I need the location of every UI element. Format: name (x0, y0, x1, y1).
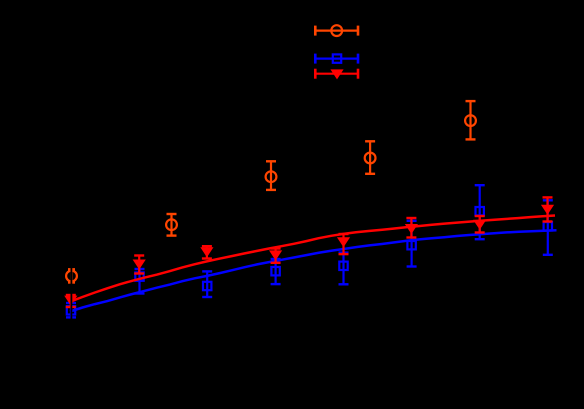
red errorbar point R4 (269, 249, 282, 263)
blue errorbar point B5 (339, 253, 349, 285)
blue fit curve (70, 230, 557, 311)
y-axis spine (black, drawn over leftmost markers) (71, 90, 73, 340)
red errorbar point R6 (405, 218, 418, 238)
orange errorbar point O2 (166, 214, 177, 236)
blue errorbar point B6 (407, 221, 417, 267)
blue errorbar point B4 (271, 259, 281, 284)
red errorbar point R2 (133, 256, 146, 274)
legend entry 2: blue square sample (315, 54, 358, 64)
red errorbar point R5 (337, 234, 350, 254)
red errorbar point R3 (200, 246, 213, 258)
orange errorbar point O4 (365, 141, 376, 174)
blue errorbar point B3 (202, 271, 212, 297)
red errorbar point R7 (473, 216, 486, 233)
red fit curve (70, 216, 555, 302)
legend entry 1: orange circle sample (315, 25, 358, 36)
red errorbar point R1 (64, 295, 77, 307)
orange errorbar point O3 (266, 161, 277, 190)
orange errorbar point O5 (465, 101, 476, 139)
blue errorbar point B2 (135, 269, 145, 294)
legend entry 3: red triangle sample (315, 69, 358, 80)
blue errorbar point B7 (475, 185, 485, 239)
blue errorbar point B8 (543, 200, 553, 255)
red errorbar point R8 (541, 197, 554, 221)
orange errorbar point O1 (66, 269, 77, 282)
blue errorbar point B1 (66, 303, 76, 317)
